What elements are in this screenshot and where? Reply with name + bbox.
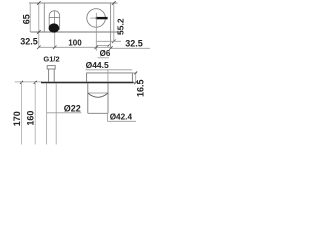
dim line 160: [34, 82, 36, 145]
housing top extension: [132, 72, 137, 74]
svg-text:65: 65: [21, 14, 31, 24]
handle knob left edge: [87, 83, 89, 113]
main bottom dim line: [39, 46, 111, 48]
tick main 96.3: [95, 46, 99, 50]
plate bottom edge with extensions: [31, 31, 122, 33]
dia22 shelf: [47, 112, 81, 114]
svg-text:Ø44.5: Ø44.5: [86, 60, 109, 70]
deck thin extension left: [15, 81, 42, 83]
dim line 16.5: [135, 73, 137, 83]
dim line 65 vertical: [29, 3, 31, 32]
tick 16.5 bottom: [134, 81, 137, 84]
spout tube left edge: [46, 83, 48, 144]
knob leader vertical: [107, 113, 109, 121]
dia6 leader line: [96, 44, 109, 46]
extension line at x38.8: [38, 3, 40, 47]
svg-text:160: 160: [25, 111, 35, 126]
svg-text:G1/2: G1/2: [43, 55, 59, 64]
dim line 55.2 vertical: [113, 3, 115, 41]
dia6 leader tick: [108, 44, 110, 46]
dia44.5 shelf: [86, 69, 133, 71]
tick 16.5 top: [134, 71, 137, 74]
spout capsule mid line: [49, 17, 59, 19]
tick at 38.8/32: [37, 30, 41, 34]
cartridge housing rect: [87, 73, 133, 82]
handle center line: [95, 13, 97, 27]
aerator dot: [49, 23, 60, 32]
spout center extension: [54, 33, 56, 48]
handle circle: [87, 9, 106, 28]
plate right edge extended down: [110, 3, 112, 48]
G1/2 fitting cap: [47, 66, 55, 69]
svg-text:Ø42.4: Ø42.4: [110, 112, 133, 121]
ref line 55.2 bottom: [96, 40, 121, 42]
spout tube right edge: [55, 83, 57, 144]
tick at 38.8/3: [37, 1, 41, 5]
handle knob bottom: [88, 112, 108, 114]
tick main 38.8: [37, 46, 41, 50]
svg-text:Ø6: Ø6: [100, 49, 111, 58]
tick 55.2 top: [112, 1, 116, 5]
tick 55.2 bottom: [112, 40, 116, 44]
lever dash: [96, 17, 108, 19]
svg-text:32.5: 32.5: [20, 36, 38, 46]
svg-text:100: 100: [68, 38, 82, 47]
tick main 110.8: [109, 46, 113, 50]
tick deck 17.5: [20, 81, 23, 84]
handle cross hline: [90, 17, 96, 19]
tick deck 33.8: [34, 81, 37, 84]
G1/2 fitting tube right: [53, 69, 55, 82]
plate top edge with extensions: [29, 2, 118, 4]
handle knob right edge: [107, 83, 109, 113]
dia44.5 leader drop: [107, 70, 109, 82]
svg-text:170: 170: [12, 111, 22, 126]
knob arc: [88, 93, 108, 97]
dia42.4 shelf: [107, 120, 136, 122]
svg-text:55.2: 55.2: [115, 18, 125, 35]
svg-text:Ø22: Ø22: [64, 103, 81, 113]
spout capsule outline: [49, 11, 59, 30]
spout capsule center line: [53, 11, 55, 24]
G1/2 fitting tube left: [48, 69, 50, 82]
handle center extension: [95, 27, 97, 50]
right 32.5 dim line: [111, 47, 150, 49]
wall plate bar: [41, 82, 134, 84]
knob inner line: [88, 92, 108, 94]
tick main 54.7: [53, 46, 57, 50]
dim line 170: [21, 82, 23, 145]
dia6 shelf: [98, 57, 109, 59]
svg-text:32.5: 32.5: [125, 38, 143, 48]
plate left edge: [43, 3, 45, 32]
deck right extension: [134, 82, 138, 84]
svg-text:16.5: 16.5: [136, 79, 146, 97]
